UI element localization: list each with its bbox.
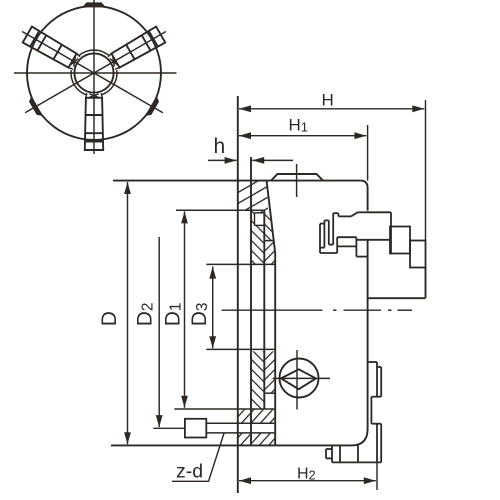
- H right extension: [425, 100, 427, 240]
- hatch right band lower forward: [264, 241, 275, 265]
- H1 extension line: [367, 125, 369, 181]
- svg-text:D3: D3: [188, 303, 211, 327]
- top edge of body: [113, 180, 361, 182]
- hatch region G left band: [251, 351, 264, 409]
- D1 bottom extension: [174, 408, 275, 410]
- H dimension line: [239, 108, 424, 110]
- jaw upper-left: [23, 27, 81, 71]
- hatch region G right band: [264, 351, 275, 393]
- mounting foot: [326, 445, 381, 462]
- D3 top extension: [206, 263, 275, 265]
- pinion crosshair horizontal: [273, 377, 331, 379]
- hatch left band backslash: [251, 210, 264, 264]
- block R2: [390, 227, 410, 254]
- H2 dimension line: [239, 480, 376, 482]
- jaw upper-right: [107, 27, 165, 71]
- balance mark top: [82, 2, 106, 7]
- horizontal centerline: [14, 72, 177, 74]
- H1 dimension line: [239, 135, 366, 137]
- hatch flange band lower: [238, 433, 275, 445]
- step line right band: [264, 240, 274, 242]
- pinion bottom edge: [356, 239, 391, 241]
- white notch upper: [255, 213, 265, 226]
- white tab rect: [337, 236, 356, 238]
- inner bore circle: [74, 53, 113, 92]
- svg-text:H: H: [322, 90, 334, 109]
- bolt hole line upper: [206, 422, 275, 424]
- body right edge upper: [367, 188, 369, 211]
- D2 dimension line: [158, 237, 160, 427]
- D3 bottom extension: [206, 348, 275, 350]
- prong steps left: [333, 212, 338, 214]
- scroll arc lower-right gap: [102, 70, 117, 95]
- pinion right edge: [390, 212, 392, 253]
- notch outline: [255, 212, 265, 214]
- hatch region A jaw top section: [238, 181, 268, 210]
- svg-text:D: D: [98, 311, 121, 326]
- hatch flange band upper: [238, 410, 275, 423]
- H2 right extension: [376, 462, 378, 490]
- body face line x2: [250, 157, 252, 445]
- svg-text:h: h: [214, 135, 226, 158]
- jaw face line x1: [237, 96, 239, 493]
- h dimension left tail: [208, 159, 237, 161]
- back step line: [368, 297, 426, 299]
- notch G outline: [264, 392, 275, 394]
- pinion square socket diamond: [281, 369, 316, 389]
- outer circle: [27, 6, 161, 140]
- pinion front circle: [280, 359, 319, 398]
- slant edge of jaw guide: [267, 181, 276, 253]
- scroll arc lower-left gap: [71, 70, 86, 95]
- hatch right band upper backslash: [264, 210, 273, 240]
- pinion crosshair vertical: [296, 350, 298, 410]
- svg-text:D2: D2: [133, 303, 156, 327]
- scroll arc top gap: [79, 50, 109, 56]
- block R3: [410, 241, 426, 268]
- balance mark lower-right: [145, 96, 161, 119]
- pinion side profile: [320, 212, 426, 267]
- bore step line x3: [263, 210, 265, 409]
- D1 dimension line: [184, 211, 186, 407]
- body right edge lower: [367, 240, 369, 429]
- bottom edge of body: [111, 444, 352, 446]
- bolt hole line lower: [206, 432, 275, 434]
- back flange profile: [368, 362, 382, 462]
- bump center tick: [296, 164, 298, 197]
- vertical centerline: [93, 0, 95, 154]
- diagonal centerline 30deg up-right: [25, 32, 166, 113]
- svg-text:H1: H1: [289, 116, 309, 135]
- jaw bottom: [85, 93, 103, 150]
- svg-text:H2: H2: [297, 465, 316, 482]
- svg-text:z-d: z-d: [176, 460, 203, 482]
- top bump trapezoid: [271, 174, 323, 181]
- body top-right corner arc: [361, 181, 368, 188]
- svg-text:D1: D1: [161, 303, 184, 327]
- back right edge: [425, 268, 427, 299]
- z-d bolt square: [185, 419, 206, 438]
- D dimension line: [127, 182, 129, 444]
- balance mark lower-left: [27, 96, 43, 119]
- bore step line x4: [274, 253, 276, 445]
- D2 bottom extension: [153, 427, 185, 429]
- diagonal centerline 30deg up-left: [22, 32, 163, 113]
- centerline dash-dot: [222, 309, 413, 311]
- foot left tab: [326, 448, 332, 450]
- step line D1 top: [176, 209, 265, 211]
- body bottom-right corner arc: [352, 429, 368, 445]
- z-d leader: [172, 433, 224, 481]
- h dimension right tail: [252, 159, 293, 161]
- D3 dimension line: [212, 267, 214, 349]
